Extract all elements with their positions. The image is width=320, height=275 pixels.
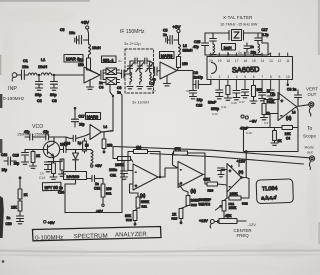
- svg-text:1: 1: [210, 75, 212, 79]
- svg-text:L4: L4: [104, 125, 108, 129]
- svg-text:8K: 8K: [278, 139, 283, 143]
- svg-text:13: 13: [269, 59, 273, 63]
- capacitor C31 100n: [109, 161, 128, 180]
- svg-text:out: out: [307, 150, 313, 155]
- svg-text:14: 14: [292, 111, 296, 115]
- svg-text:1mH: 1mH: [224, 46, 232, 50]
- resistor 1K left chain: [18, 177, 28, 199]
- capacitor xtal mid 1n: [244, 43, 256, 55]
- wire collector rail: [25, 137, 66, 150]
- svg-text:VERT: VERT: [306, 87, 318, 92]
- potentiometer sweep width 100K: [199, 198, 238, 219]
- svg-text:+8V: +8V: [173, 25, 181, 30]
- svg-text:R20: R20: [208, 189, 214, 193]
- svg-text:80nF: 80nF: [208, 101, 217, 105]
- svg-text:R11: R11: [106, 192, 112, 196]
- svg-text:17: 17: [235, 59, 239, 63]
- resistor pin6 560: [250, 86, 262, 104]
- node VERT OUT label: [306, 87, 318, 98]
- wire mixer LO port down: [102, 85, 114, 133]
- svg-text:7: 7: [261, 75, 263, 79]
- wire base left: [25, 150, 43, 153]
- svg-text:MAR 6: MAR 6: [66, 57, 80, 62]
- inductor L6 820nH: [179, 44, 194, 57]
- svg-text:10p: 10p: [197, 98, 203, 102]
- capacitor pin2 80nF: [208, 90, 223, 111]
- svg-text:16: 16: [244, 59, 248, 63]
- svg-text:L1: L1: [41, 58, 45, 62]
- svg-text:820nH: 820nH: [183, 49, 194, 53]
- svg-text:47p: 47p: [43, 130, 49, 134]
- svg-text:R15: R15: [172, 217, 178, 221]
- terminal horiz out: [309, 156, 314, 170]
- wire sweep rail to mixer loop: [65, 93, 122, 213]
- svg-text:10K: 10K: [285, 132, 292, 136]
- amplifier U6 MAR6 buffer label: [86, 113, 101, 120]
- svg-text:C6: C6: [117, 86, 121, 90]
- svg-text:100: 100: [106, 187, 112, 191]
- svg-text:SBL-1: SBL-1: [103, 58, 114, 63]
- op-amp U5d triangle: [266, 89, 297, 121]
- svg-text:150: 150: [182, 62, 188, 66]
- power +8V bottom left: [44, 220, 56, 225]
- resistor R13 100K: [178, 183, 199, 207]
- svg-text:47K: 47K: [174, 147, 181, 151]
- svg-text:R11: R11: [142, 205, 148, 209]
- node -12V label: [248, 222, 257, 227]
- resistor R5 1M feedback: [128, 146, 160, 178]
- svg-text:3x 110nH: 3x 110nH: [132, 100, 149, 105]
- svg-text:0-100MHz: 0-100MHz: [3, 96, 25, 101]
- wire amp2 out: [177, 71, 193, 85]
- node VCO label: [17, 124, 49, 137]
- svg-text:30p: 30p: [50, 92, 57, 97]
- node IF 150MHz label: [120, 29, 149, 105]
- amplifier U1 triangle: [84, 67, 100, 83]
- svg-text:BFY 90: BFY 90: [44, 185, 58, 190]
- svg-text:TL084: TL084: [262, 186, 278, 193]
- IC U4 SA605D body: [207, 57, 293, 80]
- capacitor C4 coupling to mixer: [99, 71, 103, 90]
- inductor LT3: [147, 72, 153, 89]
- amplifier U1 MAR6 label: [64, 55, 83, 63]
- svg-text:390p: 390p: [211, 107, 219, 111]
- svg-text:C5: C5: [60, 28, 64, 32]
- IC U4 bottom pin numbers: [210, 75, 290, 79]
- inductor L1: [28, 58, 47, 75]
- capacitor C5 1n decoupling: [163, 29, 179, 45]
- svg-text:1n: 1n: [250, 45, 254, 49]
- svg-text:C24: C24: [58, 191, 64, 195]
- svg-text:C17: C17: [79, 115, 85, 119]
- svg-text:10p: 10p: [14, 162, 20, 166]
- capacitor C17 10p stub: [72, 107, 85, 127]
- node extra misc labels: [118, 59, 190, 93]
- svg-text:3: 3: [227, 75, 229, 79]
- svg-text:C8 1n: C8 1n: [287, 88, 296, 92]
- svg-text:R13: R13: [191, 203, 197, 207]
- edge artifact left streaks: [0, 55, 4, 263]
- svg-text:1M: 1M: [136, 146, 141, 150]
- svg-text:18: 18: [226, 59, 230, 63]
- svg-text:4: 4: [236, 75, 238, 79]
- svg-text:C13: C13: [1, 153, 7, 157]
- svg-text:+12V: +12V: [237, 160, 246, 164]
- resistor R16 100K to d input: [261, 100, 280, 120]
- svg-text:WIDTH: WIDTH: [199, 203, 211, 207]
- svg-text:10uH: 10uH: [38, 65, 47, 69]
- svg-text:100K: 100K: [115, 163, 124, 167]
- inductor LT2: [137, 72, 143, 89]
- svg-text:C12: C12: [94, 187, 100, 191]
- capacitor C15 47p: [193, 33, 209, 55]
- svg-text:(d): (d): [286, 116, 292, 121]
- svg-text:3x 2+12p: 3x 2+12p: [124, 41, 141, 46]
- terminal center freq input: [199, 219, 214, 228]
- wire d feedback loop: [244, 107, 299, 152]
- capacitor 100p coupling to varactor: [60, 143, 76, 153]
- capacitor C9 coupling: [193, 71, 211, 89]
- svg-text:1n: 1n: [99, 81, 103, 85]
- svg-text:C18: C18: [246, 131, 252, 135]
- IC U4 top pin stubs: [211, 53, 288, 57]
- diode D1 MV209 label box: [64, 172, 87, 180]
- svg-text:2x47p: 2x47p: [194, 76, 203, 80]
- svg-text:11: 11: [286, 59, 290, 63]
- resistor R2 150 bias: [177, 57, 188, 71]
- svg-text:1n: 1n: [163, 33, 167, 37]
- svg-text:100n: 100n: [109, 168, 117, 172]
- resistor R18 8K: [271, 128, 282, 146]
- resistor R22 100K c feedback: [227, 178, 249, 206]
- svg-text:C8: C8: [186, 89, 190, 93]
- capacitor 10n decoupling: [69, 31, 89, 44]
- svg-text:19: 19: [218, 59, 222, 63]
- resistor R11 800K: [130, 184, 150, 209]
- capacitor xtal right leg: [255, 28, 269, 44]
- capacitor C18 47p: [24, 130, 33, 140]
- op-amp U5b triangle: [178, 162, 203, 194]
- crystal X1: [227, 30, 246, 41]
- IC U4 top pin numbers: [209, 59, 290, 63]
- svg-text:C15: C15: [194, 40, 200, 44]
- svg-text:C7: C7: [152, 89, 156, 93]
- diode D1 varactor: [73, 150, 79, 171]
- svg-text:ANALYZER: ANALYZER: [115, 231, 147, 239]
- potentiometer center freq 40K: [215, 214, 246, 224]
- svg-text:C30: C30: [6, 222, 12, 226]
- edge artifact bottom smudge: [0, 251, 320, 256]
- wire xtal top rail: [205, 32, 262, 34]
- capacitor coupling Cb: [140, 58, 150, 64]
- capacitor 1n left bottom: [6, 216, 24, 226]
- capacitor c noninv input: [218, 168, 228, 177]
- resistor R19 68K: [204, 178, 228, 193]
- resistor R14 1K: [172, 206, 189, 224]
- svg-text:C17: C17: [239, 100, 245, 104]
- svg-text:R22: R22: [242, 202, 248, 206]
- svg-text:C4: C4: [264, 121, 268, 125]
- capacitor C1: [22, 59, 29, 80]
- svg-text:C11: C11: [221, 105, 227, 109]
- resistor R11b 100: [96, 179, 112, 214]
- wire input rail: [17, 74, 28, 76]
- svg-text:30p: 30p: [35, 92, 42, 97]
- capacitor mixer IF out: [117, 70, 129, 95]
- svg-text:560: 560: [257, 88, 263, 92]
- mixer U2 body: [103, 68, 119, 85]
- svg-text:VCO: VCO: [32, 124, 43, 130]
- svg-text:10p: 10p: [79, 123, 85, 127]
- node extra cap labels under IC: [212, 100, 276, 135]
- ground below amp2: [164, 76, 171, 86]
- IC U5 TL084 label box: [256, 179, 293, 204]
- svg-text:Scope: Scope: [303, 134, 316, 139]
- svg-text:R1: R1: [79, 58, 83, 62]
- wire d output: [297, 105, 309, 107]
- capacitor xtal left leg: [210, 33, 217, 44]
- svg-text:100K: 100K: [230, 192, 239, 196]
- svg-text:4.7p: 4.7p: [262, 33, 269, 37]
- svg-text:15: 15: [252, 59, 256, 63]
- svg-text:OUT: OUT: [308, 92, 317, 97]
- svg-text:MV209: MV209: [67, 174, 80, 179]
- svg-text:SA605D: SA605D: [232, 65, 260, 75]
- svg-text:SPECTRUM: SPECTRUM: [73, 233, 107, 241]
- wire c output up: [241, 163, 247, 178]
- resistor 100K varactor bias: [83, 138, 87, 153]
- svg-text:C14: C14: [39, 176, 45, 180]
- wire to amp1: [38, 74, 84, 75]
- svg-text:C13: C13: [270, 101, 276, 105]
- ground below amp1: [87, 80, 94, 90]
- capacitor C13 far left: [1, 153, 16, 172]
- IC U4 bottom pin stubs: [211, 80, 289, 100]
- transistor Q1 circle: [43, 141, 59, 157]
- svg-text:C4: C4: [99, 86, 103, 90]
- title box: [33, 227, 162, 241]
- svg-text:1n: 1n: [7, 216, 11, 220]
- resistor R1 150 bias: [78, 58, 99, 75]
- inductor L2 10uH choke: [89, 44, 101, 58]
- svg-text:C1: C1: [23, 59, 28, 63]
- inductor L5 choke: [76, 144, 103, 169]
- resistor R4 100K input: [113, 147, 133, 167]
- resistor R6 47K feedback: [173, 147, 206, 175]
- svg-text:C12: C12: [212, 112, 218, 116]
- svg-text:FREQ: FREQ: [237, 233, 250, 238]
- capacitor C12 1n: [87, 176, 104, 191]
- wire varactor down to sweep rail: [58, 180, 76, 213]
- node CENTER FREQ label: [234, 228, 252, 238]
- resistor emitter 2: [54, 159, 66, 176]
- resistor R12 80K: [125, 208, 138, 225]
- wire b out down: [205, 175, 207, 185]
- wire sweep line A: [113, 147, 310, 158]
- capacitor emitter bypass: [45, 158, 54, 172]
- svg-text:800K: 800K: [141, 200, 150, 204]
- svg-text:14: 14: [261, 59, 265, 63]
- svg-text:8: 8: [270, 75, 272, 79]
- input terminal J1: [12, 73, 17, 81]
- svg-text:40K: 40K: [225, 214, 232, 218]
- svg-text:1n: 1n: [95, 182, 99, 186]
- svg-text:1n: 1n: [40, 172, 44, 176]
- svg-text:R12: R12: [126, 218, 132, 222]
- power +8V node: [60, 20, 89, 44]
- svg-text:1n: 1n: [272, 93, 276, 97]
- terminal vert out: [309, 102, 314, 116]
- svg-text:150: 150: [78, 63, 84, 67]
- amplifier U3 MAR6 label: [160, 52, 175, 59]
- svg-text:C17: C17: [262, 28, 268, 32]
- svg-text:10: 10: [286, 75, 290, 79]
- capacitor coupling Ca: [130, 58, 140, 64]
- svg-text:(b): (b): [191, 189, 197, 194]
- inductor LT1: [127, 72, 133, 89]
- wire buffer out to mixer: [102, 131, 114, 132]
- svg-text:C2: C2: [37, 99, 42, 103]
- resistor R17 10K feedback: [282, 126, 293, 141]
- capacitor pin5: [242, 90, 249, 98]
- svg-text:-12V: -12V: [248, 222, 257, 227]
- svg-text:150: 150: [107, 144, 113, 148]
- wire d inverting input: [270, 114, 278, 128]
- svg-text:C31: C31: [110, 174, 116, 178]
- svg-text:~6V: ~6V: [250, 119, 258, 124]
- transistor Q1 BFY90 label box: [42, 182, 61, 190]
- amplifier U3 triangle: [160, 62, 177, 79]
- wire a out to b: [159, 168, 178, 178]
- node 1n C14 label: [39, 172, 45, 181]
- svg-text:C4: C4: [286, 137, 290, 141]
- resistor emitter: [50, 162, 57, 180]
- svg-text:C16: C16: [231, 101, 237, 105]
- inductor L1b: [41, 73, 54, 75]
- svg-text:1n: 1n: [59, 186, 63, 190]
- node +12V label opamp c: [237, 160, 246, 167]
- svg-text:+: +: [281, 99, 284, 104]
- power +8V node amp2: [173, 25, 181, 45]
- svg-text:C9: C9: [194, 71, 198, 75]
- svg-text:2: 2: [219, 75, 221, 79]
- svg-text:C5: C5: [163, 29, 167, 33]
- svg-text:(a): (a): [140, 193, 146, 198]
- svg-text:X-TAL FILTER: X-TAL FILTER: [223, 15, 253, 20]
- svg-text:MAR6: MAR6: [161, 53, 173, 58]
- svg-text:a,b,c,d: a,b,c,d: [261, 195, 276, 202]
- svg-text:15K: 15K: [11, 206, 18, 210]
- capacitor C7 filter out: [150, 61, 160, 86]
- svg-text:To: To: [307, 126, 313, 132]
- capacitor C8 1n at d output: [287, 88, 302, 106]
- capacitor C10 10p: [190, 85, 203, 108]
- svg-text:12: 12: [278, 59, 282, 63]
- node X-TAL FILTER label: [220, 15, 258, 27]
- svg-text:6: 6: [253, 75, 255, 79]
- IF bandpass filter FL1 dashed enclosure: [125, 49, 154, 93]
- inductor xtal right: [255, 44, 261, 57]
- wire sweep line B: [150, 154, 304, 165]
- svg-text:+12V: +12V: [199, 219, 208, 223]
- node INP label: [3, 86, 25, 101]
- node title text: [35, 231, 147, 242]
- node 2x1mH label: [238, 51, 251, 55]
- svg-text:MAR6: MAR6: [87, 114, 99, 119]
- svg-text:68K: 68K: [204, 178, 211, 182]
- amplifier U6 triangle: [90, 125, 102, 140]
- resistor R3 1K base: [30, 150, 41, 169]
- node Horiz out label: [305, 145, 314, 155]
- capacitor pin7: [259, 93, 266, 101]
- trimmer capacitor CT3: [146, 61, 154, 72]
- svg-text:+8V: +8V: [95, 164, 102, 168]
- op-amp U5c triangle: [227, 164, 244, 193]
- inductor label 1mH box: [222, 44, 236, 51]
- svg-text:47p: 47p: [24, 130, 30, 134]
- svg-text:10p: 10p: [2, 168, 8, 172]
- node test point circles: [240, 115, 257, 131]
- trimmer capacitor CT2: [136, 61, 144, 72]
- svg-text:5: 5: [244, 75, 246, 79]
- wire branch to opamp c supply: [245, 151, 247, 163]
- svg-text:IF 150MHz: IF 150MHz: [120, 29, 145, 35]
- capacitor C19 47p: [43, 130, 49, 140]
- op-amp U5a triangle: [133, 164, 158, 198]
- capacitor C15 10p base: [13, 153, 29, 166]
- svg-text:C15: C15: [13, 154, 19, 158]
- node To Scope label: [303, 126, 316, 139]
- svg-text:C7: C7: [151, 82, 155, 86]
- wire xtal bottom rail: [205, 33, 268, 55]
- svg-text:10.7MHz -15 kHz BW: 10.7MHz -15 kHz BW: [220, 22, 258, 27]
- svg-text:C10: C10: [196, 104, 202, 108]
- mixer U2 SBL-1 label: [102, 56, 117, 63]
- svg-text:1p: 1p: [78, 141, 82, 145]
- resistor 150 buffer bias: [102, 125, 112, 153]
- trimmer capacitor CT1: [126, 61, 134, 72]
- svg-text:L6: L6: [183, 44, 187, 48]
- capacitor pin4: [233, 91, 240, 100]
- svg-text:4p: 4p: [152, 78, 156, 82]
- svg-text:4u: 4u: [118, 59, 122, 63]
- capacitor pin8 1n: [267, 90, 275, 98]
- capacitor C2 30p: [35, 75, 43, 103]
- svg-text:+8V: +8V: [81, 20, 89, 25]
- svg-text:SWEEP: SWEEP: [199, 198, 212, 202]
- wire filter entry: [129, 61, 131, 74]
- svg-text:C3: C3: [52, 99, 57, 103]
- capacitor C3 30p: [50, 75, 58, 103]
- svg-text:9: 9: [279, 75, 281, 79]
- svg-text:10uH: 10uH: [92, 46, 101, 50]
- svg-text:(c): (c): [239, 169, 244, 174]
- svg-text:+8V: +8V: [48, 220, 56, 225]
- resistor 15K left chain: [11, 199, 22, 216]
- svg-text:12: 12: [267, 89, 271, 93]
- svg-text:47p: 47p: [193, 45, 199, 49]
- svg-text:10n: 10n: [69, 31, 75, 35]
- svg-text:13: 13: [266, 112, 270, 116]
- svg-text:0-100MHz: 0-100MHz: [35, 234, 63, 242]
- svg-text:20: 20: [209, 59, 213, 63]
- svg-text:C16: C16: [64, 142, 70, 146]
- svg-text:10n: 10n: [22, 65, 28, 69]
- inductor xtal left: [210, 44, 216, 57]
- resistor pin3: [224, 86, 231, 101]
- svg-text:100K: 100K: [229, 206, 238, 210]
- capacitor C16 1p coupling: [64, 134, 90, 146]
